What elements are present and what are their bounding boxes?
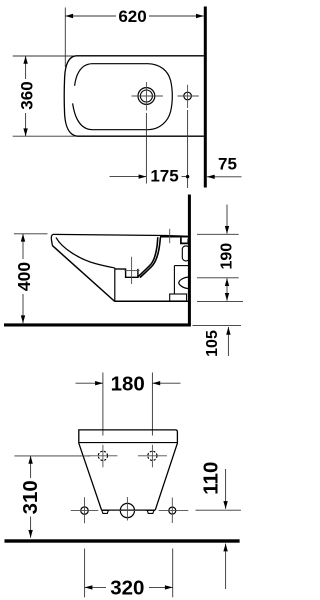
dim 320 arrow right (165, 585, 173, 589)
left foot (102, 510, 109, 513)
dim 620 extension line left (64, 8, 66, 68)
rim centerline cross (side view) (169, 229, 171, 243)
upper fixing hole right cross (138, 455, 167, 457)
svg-text:75: 75 (218, 155, 237, 174)
svg-text:320: 320 (110, 577, 144, 600)
dim 175 extension from faucet (145, 113, 147, 184)
svg-text:180: 180 (111, 372, 145, 395)
internal shelf horizontal (174, 265, 188, 267)
water inlet bracket (181, 238, 188, 244)
bidet rim back thick segment (160, 236, 188, 238)
right foot (147, 510, 154, 513)
dim 110 extension (196, 509, 241, 511)
upper fixing hole left cross (88, 455, 117, 457)
bidet outer rim outline (top view) (64, 56, 204, 136)
drain centerline cross (side view) (131, 257, 133, 284)
rim band line (front view) (79, 442, 178, 444)
faucet hole outer circle (138, 88, 155, 105)
dim 360 arrow up (23, 56, 27, 64)
dim 400 extension top (14, 233, 48, 235)
faucet centerline cross (132, 95, 163, 97)
svg-text:310: 310 (19, 480, 42, 514)
dim 180 line left arrow (76, 382, 103, 384)
bottom fixing hole left cross (71, 510, 99, 512)
internal vertical line (173, 266, 175, 294)
dim 620 arrow left (65, 14, 73, 18)
dim 180 line right arrow (152, 382, 180, 384)
svg-text:175: 175 (150, 166, 178, 185)
wall (top view) (204, 7, 207, 188)
dim 105 lower arrow (227, 327, 229, 356)
dim 110 lower arrow (225, 544, 227, 589)
fixing hole centerline cross (178, 95, 199, 97)
dim 105 extension top (197, 300, 243, 302)
dim 175 line right segment with dot (182, 176, 188, 178)
trap horn (179, 277, 189, 289)
bidet rim line (side view) (53, 234, 188, 236)
dim 620 arrow right (196, 14, 204, 18)
dim 175/75 extension from fixing hole (187, 110, 189, 188)
dim 190/105 shared arrows between (226, 278, 228, 301)
bidet inner bowl outline (top view) (73, 64, 173, 130)
svg-text:620: 620 (118, 7, 146, 26)
bottom edge (front view) (102, 509, 156, 511)
drain recess step (115, 269, 138, 277)
bowl rear wall inner line (140, 237, 161, 277)
dim 110 upper arrow line (225, 469, 227, 509)
upper fixing hole left (dashed) (98, 451, 107, 460)
bidet front inner vertical (114, 268, 116, 302)
dim 400 arrow down (21, 315, 25, 323)
dim 320 line (85, 586, 106, 588)
svg-text:105: 105 (204, 330, 221, 357)
dim 320 extension left (84, 549, 86, 598)
dim 310 extension top (14, 455, 90, 457)
dim 400 arrow up (21, 234, 25, 242)
dim 180 extension right (151, 373, 153, 436)
dim 320 extension right (172, 549, 174, 598)
dim 180 extension left (102, 373, 104, 436)
dim 105 extension floor (193, 324, 242, 326)
dim 320 arrow left (85, 585, 93, 589)
fixing hole circle (top view) (184, 92, 192, 100)
outlet stub rectangle (170, 294, 187, 301)
dim 360 extension top (13, 55, 75, 57)
dim 190 extension bottom (197, 277, 239, 279)
bowl interior curve (side view) (56, 238, 115, 268)
dim 310 line (30, 456, 32, 478)
dim 190 extension top (197, 233, 239, 235)
dim 190 upper arrow line (226, 205, 228, 234)
dim 360 line (25, 56, 27, 79)
dim 175 line with arrow (110, 176, 147, 178)
dim 75 line with arrow (207, 176, 242, 178)
dim 620 line (65, 15, 116, 17)
svg-text:400: 400 (14, 262, 34, 291)
faucet hole inner circle (140, 90, 152, 102)
svg-text:360: 360 (17, 81, 36, 109)
bidet nose front (51, 234, 53, 245)
bidet front diagonal (52, 246, 114, 302)
drain hole center cross (109, 510, 145, 512)
dim 310 arrow down (28, 530, 32, 538)
bidet bottom edge (side view) (115, 300, 189, 302)
bidet body trapezoid (front view) (79, 430, 178, 510)
wall (side view) (188, 195, 191, 324)
drain outlet capsule (182, 246, 189, 261)
floor (side view) (4, 323, 191, 326)
bowl rear wall outer line (138, 237, 158, 277)
dim 400 line (22, 234, 24, 259)
floor (front view) (5, 539, 240, 542)
svg-text:110: 110 (200, 462, 223, 495)
drain hole center (120, 503, 134, 517)
upper fixing hole right (dashed) (148, 451, 157, 460)
svg-text:190: 190 (219, 243, 236, 270)
dim 360 arrow down (23, 128, 27, 136)
bottom fixing hole right (169, 507, 176, 514)
dim 360 extension bottom (13, 135, 75, 137)
dim 310 arrow up (28, 456, 32, 464)
bottom fixing hole right cross (159, 510, 189, 512)
bottom fixing hole left (81, 507, 88, 514)
